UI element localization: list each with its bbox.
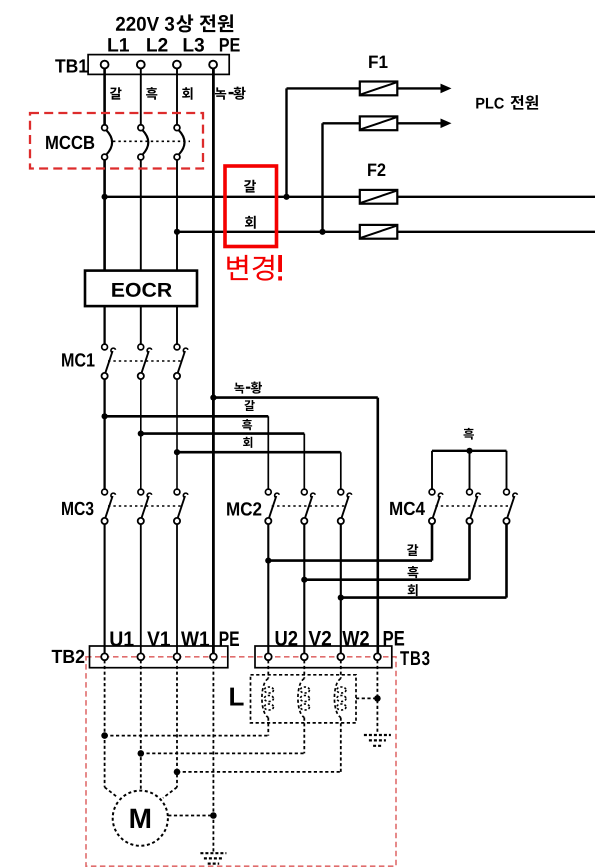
breaker pole 2 bbox=[138, 125, 148, 160]
junction brown link bbox=[265, 558, 271, 564]
wire label brown (branch) bbox=[244, 400, 254, 411]
wire label gray (top) bbox=[182, 87, 192, 99]
wire L1 EOCR to MC1 bbox=[103, 306, 105, 344]
wire brown link MC2-MC4 bbox=[268, 524, 432, 561]
dotted wire V1 down to motor bbox=[140, 660, 142, 790]
wire label gray (branch) bbox=[243, 437, 252, 448]
breaker pole 3 bbox=[174, 125, 184, 160]
label MC4 bbox=[390, 502, 425, 515]
terminal block TB1 bbox=[88, 55, 229, 75]
wire fuse F1a input bbox=[287, 87, 360, 89]
coil L3 bbox=[334, 660, 346, 717]
wire L1 MC1 to MC3 bbox=[103, 379, 105, 489]
title 220V 3-phase power bbox=[116, 14, 233, 32]
wire brown feed to fuse F2a bbox=[105, 196, 595, 198]
contactor MC4 pole 2 bbox=[466, 489, 480, 524]
wire MC4 top bus bbox=[432, 451, 507, 489]
junction L1 brown fuse feed bbox=[102, 194, 108, 200]
wire label gray (lower link) bbox=[408, 584, 418, 596]
wire brown branch to MC2 bbox=[105, 416, 269, 489]
ground (TB3 PE) bbox=[364, 735, 391, 746]
contactor MC3 pole 1 bbox=[102, 489, 116, 524]
junction motor/PE bbox=[210, 812, 217, 819]
label MCCB bbox=[46, 136, 94, 149]
arrow F1a output bbox=[397, 84, 451, 94]
wire L3 EOCR to MC1 bbox=[176, 306, 178, 344]
wire label brown (red box) bbox=[244, 180, 256, 193]
wire riser to fuse F1b bbox=[321, 123, 323, 232]
wire L2 EOCR to MC1 bbox=[140, 306, 142, 344]
junction gray link bbox=[338, 595, 344, 601]
wire L3 MCCB to EOCR bbox=[176, 160, 178, 271]
label MC3 bbox=[62, 502, 93, 515]
MC3 gang link bbox=[108, 505, 181, 507]
wire L3 TB1 to MCCB bbox=[176, 69, 178, 126]
junction L3 gray branch bbox=[174, 449, 180, 455]
wire label black (lower link) bbox=[408, 566, 419, 578]
wire black link MC2-MC4 bbox=[304, 524, 469, 580]
wire green-yellow branch to TB3 PE bbox=[213, 398, 377, 654]
fuse F1b bbox=[360, 116, 398, 130]
contactor MC2 pole 2 bbox=[301, 489, 315, 524]
terminal block TB2 bbox=[90, 646, 228, 668]
phase labels L1 L2 L3 PE bbox=[108, 38, 239, 52]
contactor MC3 pole 3 bbox=[174, 489, 188, 524]
breaker pole 1 bbox=[102, 125, 112, 160]
ground (motor PE) bbox=[200, 853, 226, 863]
junction brown/F1a riser bbox=[283, 194, 289, 200]
wire label black (branch) bbox=[242, 419, 252, 430]
label U1 V1 W1 PE bbox=[110, 632, 239, 647]
dotted wire coil2 to V1 bbox=[141, 718, 304, 754]
junction PE green-yellow bbox=[210, 395, 216, 401]
contactor MC4 pole 1 bbox=[429, 489, 443, 524]
label U2 V2 W2 PE bbox=[276, 631, 405, 646]
wire label gray (red box) bbox=[245, 216, 256, 229]
contactor MC1 pole 2 bbox=[138, 344, 152, 379]
label TB1 bbox=[55, 59, 87, 72]
junction L2 black branch bbox=[138, 431, 144, 437]
wire L3 MC3 to TB2 bbox=[176, 524, 178, 654]
label TB3 bbox=[400, 651, 429, 665]
fuse F1a bbox=[360, 82, 398, 96]
motor M bbox=[113, 791, 168, 846]
dotted wire L box to TB3 PE bbox=[356, 697, 377, 699]
terminal block TB3 bbox=[255, 646, 392, 668]
wire L2 MC1 to MC3 bbox=[140, 379, 142, 489]
junction gray/F1b riser bbox=[319, 229, 325, 235]
label PLC power bbox=[476, 95, 538, 110]
wire MC2 col3 to TB3 bbox=[340, 524, 342, 654]
dotted wire coil3 to W1 bbox=[177, 718, 341, 772]
wire label black (MC4 feed) bbox=[464, 428, 474, 440]
coil L1 bbox=[262, 660, 274, 717]
MC2 gang link bbox=[272, 505, 345, 507]
wire riser to fuse F1a bbox=[285, 88, 287, 196]
dotted wire PE down to ground bbox=[212, 660, 214, 852]
motor-area red dashed outline bbox=[86, 657, 396, 866]
wire fuse F1b input bbox=[323, 122, 360, 124]
wire black branch to MC2 bbox=[141, 434, 304, 489]
contactor MC1 pole 3 bbox=[174, 344, 188, 379]
fuse F2a bbox=[360, 190, 398, 204]
junction MC4 bus bbox=[466, 448, 472, 454]
label MC1 bbox=[62, 353, 94, 366]
breaker gang link bbox=[113, 140, 190, 142]
dotted wire W1 down to motor bbox=[163, 660, 177, 798]
dotted wire U1 down to motor bbox=[105, 660, 118, 797]
label MC2 bbox=[227, 502, 261, 515]
dotted wire motor to PE bbox=[168, 815, 213, 817]
wire L2 MCCB to EOCR bbox=[140, 160, 142, 271]
junction L1 brown branch bbox=[102, 413, 108, 419]
contactor MC2 pole 3 bbox=[338, 489, 352, 524]
fuse F2b bbox=[360, 225, 398, 239]
relay EOCR bbox=[85, 271, 197, 307]
junction V1/coil2 bbox=[138, 750, 145, 757]
wire L3 MC1 to MC3 bbox=[176, 379, 178, 489]
label L bbox=[230, 688, 243, 706]
reactor box L dotted bbox=[251, 675, 357, 723]
dotted wire TB3 PE down to ground bbox=[376, 660, 378, 732]
label F2 bbox=[368, 163, 385, 176]
junction black link bbox=[301, 577, 307, 583]
wire L2 MC3 to TB2 bbox=[140, 524, 142, 654]
wire label brown (lower link) bbox=[407, 544, 418, 556]
note byeon-gyeong! (changed!) bbox=[227, 255, 282, 281]
label TB2 bbox=[52, 650, 85, 663]
junction U1/coil1 bbox=[101, 732, 108, 739]
wire gray branch to MC2 bbox=[177, 452, 341, 489]
MC1 gang link bbox=[108, 360, 181, 362]
wire label green-yellow (top) bbox=[215, 87, 246, 100]
label F1 bbox=[369, 56, 387, 68]
wire MC2 col2 to TB3 bbox=[303, 524, 305, 654]
wire label black (top) bbox=[146, 87, 157, 100]
arrow F1b output bbox=[397, 119, 451, 129]
MC4 gang link bbox=[435, 505, 510, 507]
junction L/PE bbox=[374, 695, 381, 702]
wire L2 TB1 to MCCB bbox=[140, 69, 142, 126]
junction L3 gray fuse feed bbox=[174, 229, 180, 235]
wire L1 MC3 to TB2 bbox=[104, 524, 106, 654]
contactor MC3 pole 2 bbox=[138, 489, 152, 524]
change-highlight red box bbox=[225, 166, 277, 247]
dotted wire coil1 to U1 bbox=[105, 718, 269, 736]
junction W1/coil3 bbox=[174, 769, 181, 776]
wire L1 MCCB to EOCR bbox=[103, 160, 106, 271]
contactor MC1 pole 1 bbox=[102, 344, 116, 379]
wire gray feed to fuse F2b bbox=[177, 231, 595, 233]
wire gray link MC2-MC4 bbox=[341, 524, 507, 598]
contactor MC4 pole 3 bbox=[503, 489, 517, 524]
wire PE vertical TB1 to TB2 bbox=[212, 69, 215, 654]
coil L2 bbox=[298, 660, 310, 717]
wire L1 TB1 to MCCB bbox=[103, 69, 106, 126]
MCCB dashed outline bbox=[30, 113, 203, 169]
wire MC2 col1 to TB3 bbox=[267, 524, 269, 654]
wire label brown (top) bbox=[110, 87, 122, 99]
contactor MC2 pole 1 bbox=[265, 489, 279, 524]
wire label green-yellow (branch) bbox=[234, 382, 262, 394]
